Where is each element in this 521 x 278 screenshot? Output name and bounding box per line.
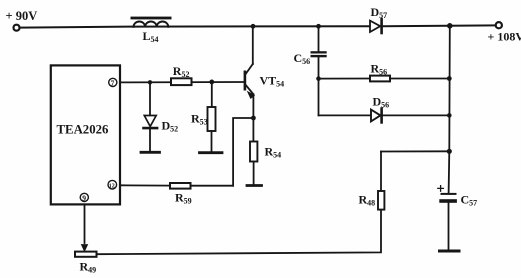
capacitor C57 polarity + <box>438 186 444 192</box>
wire D52 drop <box>149 82 151 115</box>
node D56 right junction <box>447 113 452 118</box>
diode D57 <box>370 19 382 33</box>
svg-text:R49: R49 <box>80 260 97 275</box>
pin 9 <box>80 193 88 202</box>
wire R53 drop <box>211 82 213 107</box>
resistor R53 <box>208 107 216 131</box>
svg-text:TEA2026: TEA2026 <box>57 123 110 137</box>
wire D52 to ground <box>149 129 151 151</box>
terminal +108V <box>496 22 502 28</box>
wire emitter junction to R59 riser <box>233 118 253 186</box>
wire R54 drop <box>252 118 254 142</box>
wire R48 drop <box>380 152 382 192</box>
ground (R54) <box>247 184 262 187</box>
node R53 junction <box>209 80 214 85</box>
ground (R53) <box>200 151 223 154</box>
wire R54 to ground <box>253 162 255 185</box>
wire right vertical rail <box>449 26 450 193</box>
wire emitter down <box>252 94 254 118</box>
svg-text:R54: R54 <box>265 145 282 160</box>
diode D52 <box>144 116 158 129</box>
node output junction <box>447 23 453 29</box>
svg-text:R52: R52 <box>173 64 190 79</box>
svg-text:C56: C56 <box>294 51 311 66</box>
wire R53 to ground <box>211 131 213 151</box>
node collector junction <box>251 24 256 29</box>
svg-text:R53: R53 <box>191 112 208 127</box>
svg-text:D56: D56 <box>373 95 390 110</box>
resistor R52 <box>171 78 192 85</box>
svg-text:7: 7 <box>111 79 115 88</box>
wire to R56 <box>319 78 371 80</box>
svg-text:9: 9 <box>82 194 86 203</box>
svg-text:12: 12 <box>109 183 115 189</box>
resistor R54 <box>250 142 257 162</box>
terminal +90V <box>14 25 20 31</box>
svg-text:+ 108V: + 108V <box>488 30 521 44</box>
svg-text:R56: R56 <box>371 62 388 77</box>
svg-text:VT54: VT54 <box>260 74 285 89</box>
svg-text:R48: R48 <box>359 193 376 208</box>
pin 7 <box>109 78 117 87</box>
wire R48 top link <box>381 150 449 152</box>
resistor R59 <box>170 183 191 189</box>
wire pin12 to R59 <box>120 184 170 186</box>
wiper arrow into R49 <box>81 245 87 252</box>
wire top rail right <box>383 24 496 27</box>
diode D56 <box>371 109 382 123</box>
svg-text:R59: R59 <box>175 191 192 206</box>
svg-text:+ 90V: + 90V <box>6 9 38 23</box>
wire bottom feedback <box>97 210 382 255</box>
node R48 junction <box>447 149 452 154</box>
svg-text:D57: D57 <box>371 5 388 20</box>
node R56 right junction <box>447 76 452 81</box>
wire pin7 to base <box>120 81 244 83</box>
wire R59 to riser <box>191 185 234 187</box>
IC U1 TEA2026 box <box>51 65 120 204</box>
inductor L54 <box>131 17 172 27</box>
wire R56 to rail <box>390 78 449 80</box>
capacitor C57 <box>439 193 457 250</box>
resistor R48 <box>378 191 384 210</box>
transistor VT54 <box>244 26 255 98</box>
wire C56 node down <box>318 79 320 116</box>
wire top rail left <box>20 26 369 27</box>
wire pin9 down <box>84 204 86 243</box>
svg-text:C57: C57 <box>461 193 478 208</box>
wire D56 to rail <box>383 114 450 116</box>
node C56 top junction <box>316 24 321 29</box>
potentiometer R49 <box>75 252 97 257</box>
ground (C57) <box>440 250 460 253</box>
svg-text:D52: D52 <box>162 119 179 134</box>
capacitor C56 <box>311 26 327 78</box>
pin 12 <box>108 180 117 189</box>
node emitter junction <box>251 116 256 121</box>
node D52 junction <box>148 80 152 84</box>
svg-text:L54: L54 <box>143 29 159 44</box>
ground (D52) <box>141 151 160 154</box>
wire to D56 <box>319 114 371 116</box>
resistor R56 <box>370 76 390 82</box>
node C56 bottom junction <box>316 76 321 81</box>
